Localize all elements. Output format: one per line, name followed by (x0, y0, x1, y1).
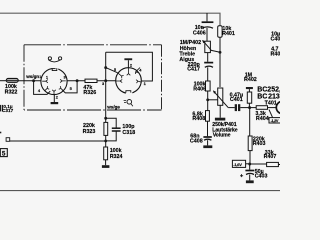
capacitor C401 (235, 104, 241, 111)
node base network (248, 106, 251, 109)
svg-text:-1,6V: -1,6V (233, 162, 242, 167)
svg-text:C40: C40 (271, 37, 281, 43)
svg-text:R408: R408 (192, 116, 205, 122)
label ws/ge (106, 105, 120, 110)
capacitor C317 (0, 105, 3, 112)
wire tube1 to R326 (67, 80, 85, 82)
node grid junction (32, 79, 35, 82)
svg-text:C406: C406 (193, 31, 206, 37)
wire C318 branch (106, 118, 117, 141)
svg-text:R407: R407 (264, 154, 277, 160)
connector box 5 (0, 149, 7, 158)
pin labels tube1 (38, 74, 73, 99)
wire base node down to R403 (249, 108, 251, 136)
wire wiper to C401 (228, 107, 235, 109)
ground C403 (246, 180, 254, 183)
wire anode loop left (105, 52, 107, 118)
node emitter bias (248, 163, 251, 166)
resistor R323 (104, 118, 108, 141)
node C318 top (104, 117, 107, 120)
wire pin5 strap (62, 81, 77, 93)
capacitor C408 (203, 137, 211, 145)
svg-text:Volume: Volume (213, 133, 231, 139)
ground P401 (215, 118, 225, 121)
svg-text:R322: R322 (5, 89, 18, 95)
wire top signal rail (0, 13, 220, 26)
capacitor C318 (112, 128, 121, 131)
node pin5 tap (104, 66, 107, 69)
wire P401 bottom (219, 105, 221, 117)
svg-text:R402: R402 (244, 77, 257, 83)
capacitor C406 (202, 22, 214, 41)
wire tone output to P401 (208, 99, 218, 101)
svg-text:5: 5 (2, 151, 6, 158)
svg-text:ws/ge: ws/ge (106, 105, 120, 110)
svg-text:C417: C417 (187, 67, 200, 73)
wire input line (10, 140, 106, 142)
resistor R324 (104, 141, 108, 165)
resistor R406 (206, 81, 211, 100)
resistor R407 (250, 162, 280, 166)
transistor T401 (276, 101, 288, 113)
resistor R403 (248, 136, 252, 164)
svg-text:R326: R326 (83, 90, 96, 96)
ground tube1 (51, 102, 59, 104)
wire R401 bottom to junction (219, 37, 221, 52)
svg-text:C318: C318 (122, 130, 135, 136)
svg-text:C317: C317 (2, 108, 14, 113)
wire anode loop top (106, 52, 153, 81)
wire junction to P401 top (219, 52, 221, 87)
svg-text:R404: R404 (256, 116, 269, 122)
wire grid input left (0, 80, 6, 82)
chassis bar R402 top (246, 87, 253, 92)
resistor R322 (6, 78, 18, 82)
wire C406 drop from rail (206, 13, 208, 21)
potentiometer P401 volume (213, 88, 228, 108)
svg-text:C408: C408 (190, 139, 203, 145)
wire C401 to base node (240, 107, 249, 109)
tick left edge (0, 132, 1, 134)
measure box -1,2V (269, 118, 281, 123)
svg-text:BC213: BC213 (257, 93, 280, 100)
node pin5 strap junction (76, 79, 79, 82)
plus sign C403 (240, 173, 244, 179)
wire pin2 ground (53, 95, 55, 102)
heater symbol (48, 57, 61, 62)
wire R326 to tube2 (97, 80, 116, 82)
measure box -1,6V (232, 160, 248, 167)
node pin3 tap (104, 79, 107, 82)
svg-text:C403: C403 (255, 174, 268, 180)
pin labels tube2 (102, 63, 147, 87)
tube V1 socket (41, 67, 67, 95)
svg-text:ws/gn1: ws/gn1 (25, 74, 41, 79)
node input junction (104, 139, 107, 142)
svg-text:C401: C401 (230, 97, 243, 103)
resistor R326 (85, 79, 97, 82)
wire bottom rail border (0, 190, 280, 192)
resistor R408 (206, 111, 210, 137)
wire to voltage box (269, 110, 273, 118)
svg-text:R403: R403 (253, 141, 266, 147)
resistor R404 (250, 106, 277, 110)
node tone network output (206, 98, 209, 101)
svg-text:T401: T401 (265, 100, 277, 106)
svg-text:R40: R40 (271, 52, 281, 58)
lamp symbol (124, 100, 133, 107)
shield box dash-dot (24, 45, 162, 110)
svg-text:1M/P402: 1M/P402 (180, 40, 201, 46)
resistor R401 (218, 26, 222, 38)
schematic text labels (5, 25, 281, 180)
capacitor C417 (204, 53, 213, 81)
resistor R402 (247, 92, 251, 108)
svg-text:R406: R406 (193, 86, 206, 92)
ground R324 (102, 165, 110, 168)
node R401/P402 wiper junction (219, 51, 222, 54)
capacitor C403 (245, 164, 254, 180)
svg-text:R324: R324 (110, 154, 123, 160)
svg-text:R401: R401 (222, 31, 235, 37)
svg-text:R323: R323 (83, 129, 96, 135)
wire pin5 diagonal (106, 68, 118, 73)
terminal square input (6, 138, 10, 142)
chassis bar tube2 pin2 (124, 58, 132, 67)
ground C408 (203, 145, 212, 148)
wire pin4 strap (34, 81, 51, 95)
potentiometer P402 Höhen (202, 40, 220, 53)
wire R408 drop (207, 100, 209, 111)
wire R322 to tube1 (18, 80, 41, 82)
svg-text:-1,2V: -1,2V (271, 119, 279, 123)
tube V2 socket (116, 68, 142, 94)
